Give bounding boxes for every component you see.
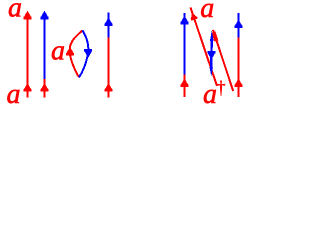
lens right arc blue (with down arrowhead) [79,31,92,78]
svg-text:a: a [200,0,214,24]
svg-text:†: † [217,78,226,98]
wire: diagonal D1 red [190,8,217,87]
wire: diagonal D2 red [213,30,233,91]
svg-text:a: a [51,36,65,67]
svg-text:a: a [203,79,217,110]
wire: strand S1 red vertical [24,12,31,98]
wire: strand B2 blue top / red bottom [235,13,242,38]
wire: strand S2 blue with red tail [41,12,48,79]
wire: strand B1 blue with red tail [181,13,188,75]
wire: strand V blue top / red bottom [105,13,112,38]
svg-text:a: a [7,79,21,110]
wire: blue spindle strand (under crossings) [208,31,215,77]
svg-text:a: a [8,0,22,24]
lens left arc red (with up arrowhead) [67,31,83,78]
